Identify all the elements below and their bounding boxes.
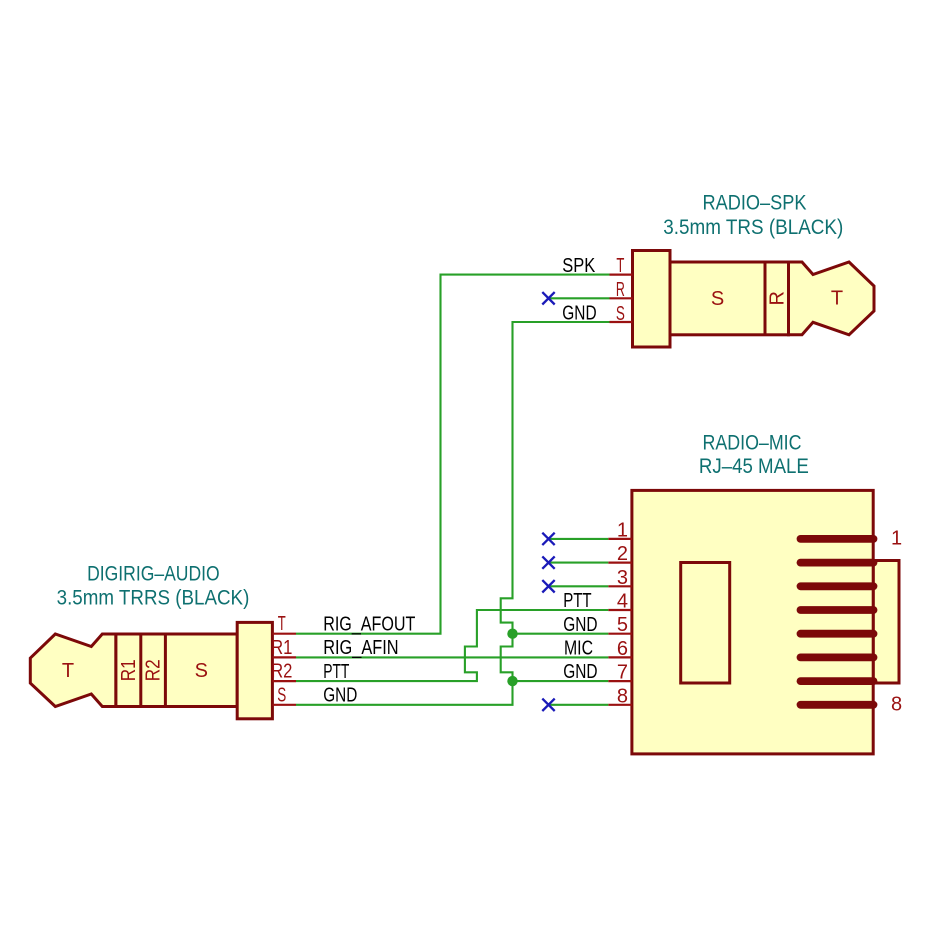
svg-text:R: R	[767, 291, 789, 305]
J3 pin stub 1	[608, 538, 632, 540]
svg-text:3: 3	[617, 567, 628, 589]
svg-text:GND: GND	[562, 302, 596, 324]
wire branch GND to RJ45 pin5	[513, 633, 609, 635]
J3 pin stub 6	[608, 656, 632, 658]
svg-text:2: 2	[617, 543, 628, 565]
junction GND at pin5 branch	[507, 629, 517, 639]
J3 contact bar pin7	[801, 677, 874, 685]
svg-text:DIGIRIG–AUDIO: DIGIRIG–AUDIO	[87, 562, 220, 585]
svg-text:1: 1	[891, 528, 902, 550]
J3 pin stub 3	[608, 585, 632, 587]
svg-text:RJ–45 MALE: RJ–45 MALE	[699, 455, 809, 478]
J1 pin stub R2	[272, 680, 296, 682]
J3 pin stub 8	[608, 704, 632, 706]
svg-text:GND: GND	[563, 661, 597, 683]
svg-text:R2: R2	[271, 661, 292, 683]
wire stub no-connect TRS R	[550, 297, 610, 299]
J1 ring divider R1/R2	[139, 634, 142, 707]
svg-text:6: 6	[617, 638, 628, 660]
J3 contact bar pin3	[801, 582, 874, 590]
svg-text:S: S	[195, 660, 208, 682]
svg-text:T: T	[278, 613, 286, 635]
J2 body sleeve S section	[670, 262, 789, 335]
svg-text:R1: R1	[271, 637, 292, 659]
J2 pin stub R	[610, 297, 633, 299]
wire stub no-connect RJ45 pin1	[550, 538, 608, 540]
J3 housing rectangle	[632, 490, 873, 754]
J3 cable window rectangle	[681, 563, 730, 684]
J1 tip T polygon	[30, 634, 116, 707]
wire branch GND to RJ45 pin7	[513, 680, 609, 682]
J1 body rectangle	[116, 634, 237, 707]
wire net SPK / RIG_AFOUT	[296, 275, 610, 634]
no-connect X at RJ45 pin1	[542, 533, 554, 545]
wire net MIC / RIG_AFIN	[296, 656, 608, 658]
J1 pin stub T	[272, 633, 296, 635]
svg-text:1: 1	[617, 519, 628, 541]
J2 ring R divider line	[764, 262, 767, 335]
J2 pin stub T	[610, 274, 633, 276]
svg-text:T: T	[616, 255, 624, 277]
no-connect X at RJ45 pin8	[542, 699, 554, 711]
J3 latch rectangle	[873, 561, 899, 684]
svg-text:S: S	[277, 684, 286, 706]
wire net GND main run with hop jogs	[296, 322, 610, 705]
J3 pin stub 7	[608, 680, 632, 682]
svg-text:4: 4	[617, 591, 628, 613]
J2 tip T polygon	[789, 262, 875, 335]
svg-text:PTT: PTT	[563, 590, 591, 612]
J3 contact bar pin4	[801, 606, 874, 614]
svg-text:3.5mm TRRS (BLACK): 3.5mm TRRS (BLACK)	[57, 587, 250, 610]
svg-text:MIC: MIC	[564, 638, 593, 660]
svg-text:RADIO–SPK: RADIO–SPK	[703, 192, 807, 215]
J1 pin stub R1	[272, 656, 296, 658]
svg-text:R2: R2	[143, 659, 165, 681]
svg-text:T: T	[831, 287, 843, 309]
wire stub no-connect RJ45 pin3	[550, 585, 608, 587]
junction GND at pin7 branch	[507, 676, 517, 686]
svg-text:8: 8	[617, 685, 628, 707]
connector J2 RADIO-SPK 3.5mm TRS plug symbol	[633, 251, 875, 348]
J3 pin stub 4	[608, 609, 632, 611]
J1 base rectangle	[237, 622, 272, 718]
wire net PTT with hop jog	[296, 610, 608, 681]
no-connect X at TRS pin R	[542, 292, 554, 304]
svg-text:SPK: SPK	[562, 255, 596, 277]
J2 pin stub S	[610, 321, 633, 323]
svg-text:5: 5	[617, 614, 628, 636]
connector J3 RADIO-MIC RJ-45 male symbol	[632, 490, 899, 754]
wire stub no-connect RJ45 pin8	[550, 704, 608, 706]
J1 ring divider R2/S	[164, 634, 167, 707]
J3 pin stub 5	[608, 633, 632, 635]
svg-text:R: R	[616, 279, 625, 301]
svg-text:7: 7	[617, 662, 628, 684]
no-connect X at RJ45 pin3	[542, 580, 554, 592]
svg-text:3.5mm TRS (BLACK): 3.5mm TRS (BLACK)	[663, 216, 843, 239]
svg-text:GND: GND	[323, 685, 357, 707]
J3 pin stub 2	[608, 561, 632, 563]
svg-text:R1: R1	[118, 659, 140, 681]
connector J1 DIGIRIG-AUDIO 3.5mm TRRS plug symbol	[30, 622, 272, 718]
svg-text:GND: GND	[563, 614, 597, 636]
svg-text:RIG_AFIN: RIG_AFIN	[323, 637, 398, 659]
J3 contact bar pin1	[801, 535, 874, 543]
no-connect X at RJ45 pin2	[542, 556, 554, 568]
J3 contact bar pin5	[801, 630, 874, 638]
J3 contact bar pin8	[801, 701, 874, 709]
svg-text:S: S	[616, 303, 625, 325]
svg-text:T: T	[62, 660, 74, 682]
J3 contact bar pin2	[801, 559, 874, 567]
J1 pin stub S	[272, 704, 296, 706]
J3 contact bar pin6	[801, 654, 874, 662]
J2 base rectangle	[633, 251, 671, 348]
svg-text:RADIO–MIC: RADIO–MIC	[703, 432, 802, 455]
svg-text:8: 8	[891, 693, 902, 715]
svg-text:S: S	[711, 288, 724, 310]
wire stub no-connect RJ45 pin2	[550, 562, 608, 564]
svg-text:RIG_AFOUT: RIG_AFOUT	[323, 613, 415, 635]
svg-text:PTT: PTT	[323, 661, 349, 683]
